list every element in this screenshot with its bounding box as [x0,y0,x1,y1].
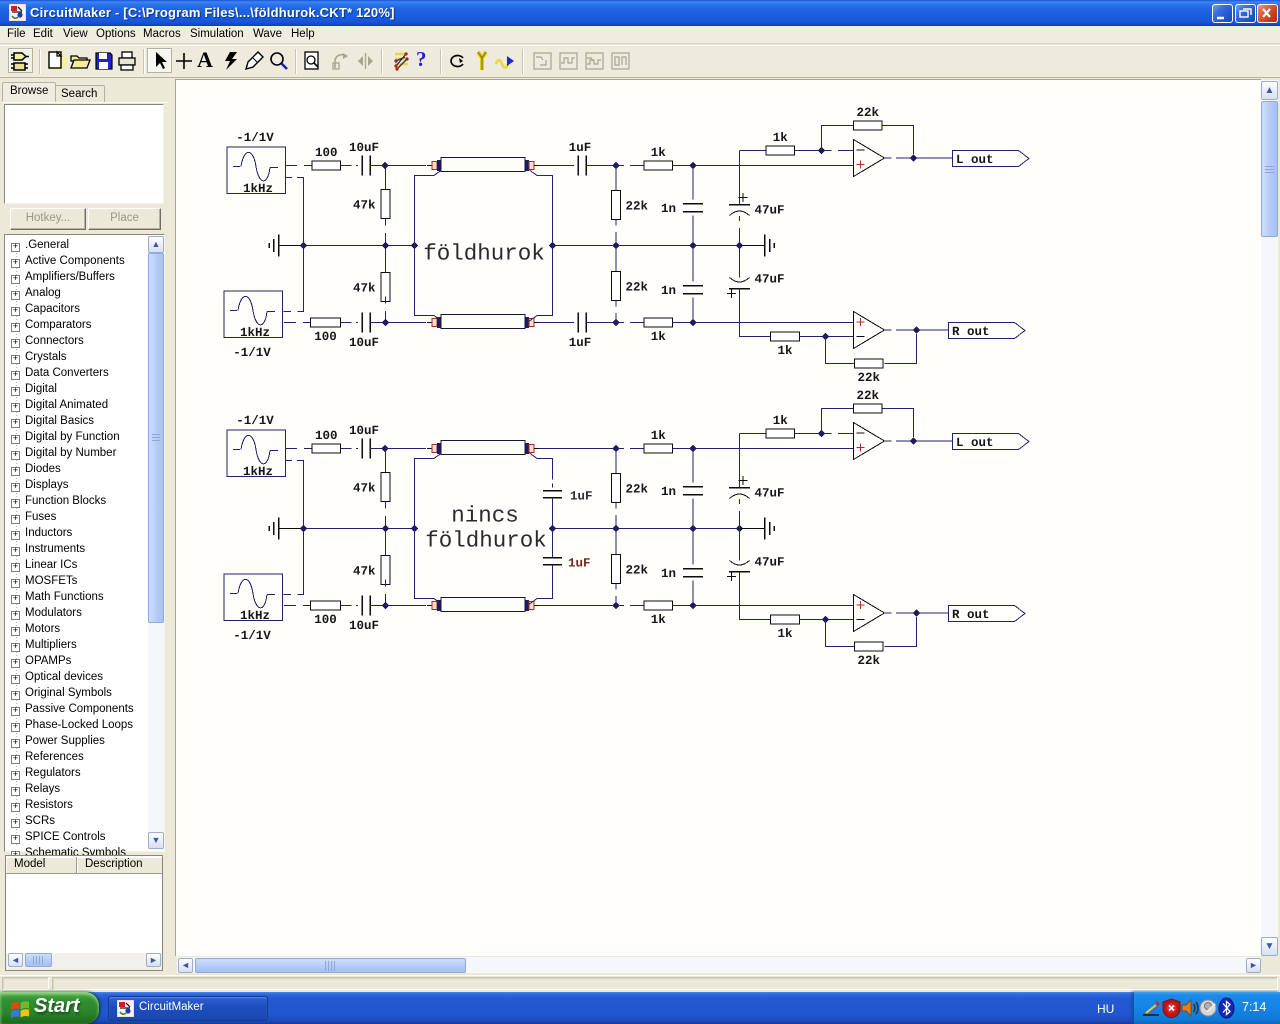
menu bar [0,26,1280,44]
resistor R2k (22k) [854,389,883,413]
junction G2c [411,525,418,532]
wire node B2 to R 1k [616,448,644,450]
wire node B1 down to 22k [615,166,617,191]
junction out1R [913,326,920,333]
wire transformer T2a to node B2 [539,448,616,450]
wire lower 1n to bottom rail [692,581,694,606]
resistor R2l (22k) [855,642,884,668]
wire shield loop left side (circuit 1) [415,170,442,321]
capacitor C2f (1n) [661,567,703,581]
wire loop upper cap to mid rail [552,498,554,529]
resistor R1d (1k) [644,318,673,344]
wire node B1 to R 1k [616,165,644,167]
wire C10uF to node D1 [370,322,385,324]
resistor R1l (22k) [855,359,884,385]
taskbar app icon [117,1000,134,1017]
output port R out (circuit 2) [949,606,1026,623]
resistor R2b (100) [311,601,341,627]
wire upper 47k top / lower 47k bottom leads [385,246,387,273]
op-amp U4 [854,595,885,632]
wire op-amp U4 output to R out [885,612,949,614]
wire lower 22k to bottom rail [615,301,617,323]
wire op-amp feed down 47uF column top [740,151,767,205]
junction E1 [612,319,619,326]
window buttons [1212,4,1233,23]
capacitor C1d (1uF) [569,313,592,351]
wire 47uF column to 1k (op-amp U3 - input) [753,433,766,435]
wire 1k to op-amp U2 - input [800,336,854,338]
capacitor C1b (10uF) [349,313,379,351]
wire mid rail to lower 47uF [739,529,741,561]
output port L out (circuit 1) [953,151,1030,168]
wire R 1k to node C2 [673,448,694,450]
resistor R1j (1k) [771,332,800,358]
wire 1k to op-amp U4 - input [800,619,854,621]
capacitor C2a (10uF) [349,424,379,459]
resistor R2e (47k) [353,473,390,502]
wire C10uF to node A1 [370,165,385,167]
windows logo [10,999,30,1018]
wire source second terminals to ground node [284,178,304,312]
toolbar icon: parts browser [10,50,32,72]
toolbar icon: rotate (disabled) [330,50,352,72]
capacitor C2g (1uF, loop upper) [543,491,562,498]
transformer/cable T1b [427,315,539,329]
wire 1k to op-amp U3 - input [795,433,853,435]
wire feedback loop down and over 22k (U4) [826,617,917,647]
capacitor C2b (10uF) [349,596,379,634]
toolbar icon: text tool [197,47,213,73]
wire shield loop right top (circuit 2) [530,453,553,488]
toolbar icon: open [69,50,91,72]
toolbar [0,45,1280,78]
canvas vertical scrollbar [1261,80,1278,956]
wire lower 47uF down to 1k feedback input [740,289,771,337]
capacitor C1c (1uF) [569,141,592,176]
wire 1k to op-amp U1 - input [795,150,853,152]
wire mid rail down to lower 1n [692,529,694,565]
wire 47k to mid rail [385,502,387,529]
junction out2L [910,437,917,444]
junction G1d [549,242,556,249]
wire upper 47k top / lower 47k bottom leads [385,529,387,556]
junction G1e [612,242,619,249]
capacitor C2g47 (47uF polarized) [729,476,785,501]
AC source V4 (-1/1V 1kHz sine generator) [224,574,283,643]
wire node A1 down through 47k resistors [385,166,387,190]
toolbar icon: delete lightning [221,50,243,72]
junction G1c [411,242,418,249]
wire R100 to C10uF [341,448,359,450]
wire node B2 down to 22k [615,449,617,474]
output port R out (circuit 1) [949,323,1026,340]
wire node A1 to transformer T1a [385,165,426,167]
wire transformer T2b to node E2 [539,605,616,607]
op-amp U2 [854,312,885,349]
output port L out (circuit 2) [953,434,1030,451]
wire R100 to C10uF bottom [341,322,359,324]
transformer/cable T2b [427,598,539,612]
wire 1n to mid rail [692,216,694,246]
wire shield loop right bottom (circuit 2) [530,565,553,605]
wire shield loop left side (circuit 2) [415,453,442,604]
wire left ground to mid rail [279,245,304,247]
AC source V2 (-1/1V 1kHz sine generator) [224,291,283,360]
capacitor C1h47 (47uF polarized) [727,273,785,299]
resistor R1e (47k) [353,190,390,219]
ground GND2 left [269,518,279,540]
junction F1 [689,319,696,326]
junction fb1b [822,333,829,340]
canvas horizontal scrollbar [177,957,1261,973]
tree connector dotted line [16,247,17,847]
left panel [0,78,176,976]
resistor R2i (1k) [766,414,795,438]
wire feedback loop down and over 22k (U2) [826,334,917,364]
transformer/cable T2a [427,441,539,455]
junction A1 top [381,162,388,169]
wire C1uF to node B1 [586,165,616,167]
wire node E2 to R 1k bottom [616,605,644,607]
wire 22k to mid rail [615,503,617,529]
resistor R2d (1k) [644,601,673,627]
junction out2R [913,609,920,616]
ground GND1 right [765,235,775,257]
wire op-amp U1 output to L out [885,157,953,159]
resistor R1c (1k) [644,146,673,170]
resistor R1b (100) [311,318,341,344]
AC source V3 (-1/1V 1kHz sine generator) [227,414,286,479]
wire 47uF to mid rail [739,499,741,529]
wire 22k to mid rail [615,220,617,246]
junction G2d [549,525,556,532]
wire 1n to mid rail [692,499,694,529]
ground GND2 right [765,518,775,540]
wire feedback loop up and over 22k (U3) [822,409,914,438]
capacitor C1f (1n) [661,284,703,298]
wire node E1 to R 1k bottom [616,322,644,324]
wire C10uF to node A2 [370,448,385,450]
tray icons [1142,998,1162,1018]
capacitor C1a (10uF) [349,141,379,176]
wire node A2 to transformer T2a [385,448,426,450]
wire op-amp U3 output to L out [885,440,953,442]
resistor R2c (1k) [644,429,673,453]
taskbar [0,992,1280,1024]
wire R 1k to node F1 [673,322,694,324]
wire 47uF to mid rail [739,216,741,246]
wire source V2 output to R100 [284,322,310,324]
wire node D2 to transformer T2b [385,605,426,607]
resistor R1f (47k) [353,273,390,302]
toolbar icon: save [93,50,115,72]
junction D1 [382,319,389,326]
wire mid rail left segment [303,245,415,247]
resistor R1a (100) [312,146,341,170]
wire feedback loop up and over 22k (U1) [822,126,914,155]
toolbar icon: probe [244,50,266,72]
capacitor C1e (1n) [661,202,703,216]
capacitor C2e (1n) [661,485,703,499]
wire node C1 down to 1n [692,166,694,200]
toolbar icon: display colors [391,50,413,72]
toolbar icons: scope buttons (disabled) [532,50,554,72]
wire mid rail to loop lower cap [552,529,554,558]
ground GND1 left [269,235,279,257]
junction G2f [689,525,696,532]
toolbar icon: mirror (disabled) [355,50,377,72]
toolbar icon: wrench [471,50,493,72]
wire mid rail down to lower 22k [615,529,617,555]
wire lower 47uF down to 1k feedback input [740,572,771,620]
wire left ground to mid rail [279,528,304,530]
wire source V1 output to R100 [286,165,312,167]
resistor R2h (22k) [612,555,649,584]
junction A2 top [381,445,388,452]
wire R100 to C10uF [341,165,359,167]
junction G2g [736,525,743,532]
wire node A2 down through 47k resistors [385,449,387,473]
wire R 1k to node C1 [673,165,694,167]
junction G2a [300,525,307,532]
junction G1b [382,242,389,249]
junction G1f [689,242,696,249]
resistor R2g (22k) [612,474,649,503]
junction C1 top [689,162,696,169]
resistor R1i (1k) [766,131,795,155]
wire transformer T1a to C1uF [539,165,574,167]
wire mid rail to right ground [740,245,765,247]
junction C2 top [689,445,696,452]
wire node C2 down to 1n [692,449,694,483]
junction F2 [689,602,696,609]
wire mid rail left segment [303,528,415,530]
toolbar icon: run wave [494,50,516,72]
resistor R2j (1k) [771,615,800,641]
window title bar [0,0,1280,26]
resistor R1k (22k) [854,106,883,130]
wire lower 1n to bottom rail [692,298,694,323]
wire node C1 to op-amp U1 + input [693,165,853,167]
junction G1g [736,242,743,249]
wire source V3 output to R100 [286,448,312,450]
junction G2b [382,525,389,532]
AC source V1 (-1/1V 1kHz sine generator) [227,131,286,196]
resistor R1h (22k) [612,272,649,301]
toolbar icon: print [117,50,139,72]
transformer/cable T1a [427,158,539,172]
wire lower 22k to bottom rail [615,584,617,606]
capacitor C1g47 (47uF polarized) [729,193,785,218]
junction fb2b [822,616,829,623]
wire mid rail down to lower 1n [692,246,694,282]
capacitor C2h47 (47uF polarized) [727,556,785,582]
wire mid rail right segment [553,245,740,247]
junction out1L [910,154,917,161]
op-amp U3 [854,423,885,460]
toolbar icon: plus/wire [173,50,195,72]
junction D2 [382,602,389,609]
junction fb2a [818,430,825,437]
wire mid rail to right ground [740,528,765,530]
junction B2 top [612,445,619,452]
toolbar icon: reset [447,50,469,72]
wire node D1 to transformer T1b [385,322,426,324]
wire 47uF column to 1k (op-amp U1 - input) [753,150,766,152]
app icon [9,4,26,21]
junction G2e [612,525,619,532]
capacitor C2h (1uF, loop lower) [543,558,562,565]
resistor R1g (22k) [612,191,649,220]
junction G1a [300,242,307,249]
toolbar icon: new [46,50,68,72]
wire op-amp feed down 47uF column top [740,434,767,488]
wire 47k to mid rail [385,219,387,246]
toolbar icon: zoom [268,50,290,72]
wire C1uF to node E1 [586,322,616,324]
wire node C2 to op-amp U3 + input [693,448,853,450]
wire mid rail to lower 47uF [739,246,741,278]
junction B1 top [612,162,619,169]
wire op-amp U2 output to R out [885,329,949,331]
wire mid rail down to lower 22k [615,246,617,272]
resistor R2a (100) [312,429,341,453]
schematic canvas [175,79,1261,956]
wire source second terminals to ground node [284,461,304,595]
wire transformer T1b to C1uF bottom [539,322,574,324]
wire C10uF to node D2 [370,605,385,607]
junction fb1a [818,147,825,154]
wire node F1 to op-amp U2 + input [693,322,854,324]
resistor R2f (47k) [353,556,390,585]
wire R 1k to node F2 [673,605,694,607]
wire shield loop right side (circuit 1) [530,170,553,321]
toolbar icon: zoom page [302,50,324,72]
status bar [0,975,1280,992]
tree scrollbar [148,236,164,850]
wire source V4 output to R100 [284,605,310,607]
op-amp U1 [854,140,885,177]
toolbar icon: help [416,47,427,72]
wire mid rail right segment [553,528,740,530]
wire node F2 to op-amp U4 + input [693,605,854,607]
toolbar icon: select arrow [150,50,172,72]
junction E2 [612,602,619,609]
wire R100 to C10uF bottom [341,605,359,607]
model/description panel [5,855,163,971]
